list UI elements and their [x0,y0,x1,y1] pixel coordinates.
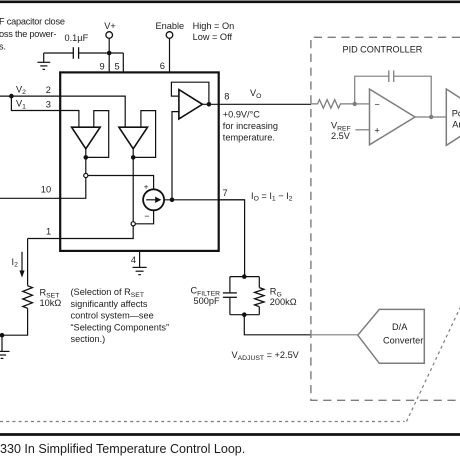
svg-text:Converter: Converter [383,336,423,346]
svg-text:Amp: Amp [452,120,460,130]
wire A3 feedback [171,82,209,104]
svg-text:oss the power-: oss the power- [0,29,56,39]
wire A2 output [132,149,134,222]
Enable wire pin 6 [169,38,171,72]
note +0.9V/degC [223,110,278,143]
PID feedback wire left segment [355,76,389,104]
pin 7 wire [219,200,245,277]
junction dot PID out [429,115,433,119]
svg-text:D/A: D/A [392,322,408,332]
svg-text:F capacitor close: F capacitor close [0,17,65,27]
wire PID op amp out [415,116,446,118]
V+ terminal [106,32,113,39]
power amp [446,89,460,145]
diagonal dashed boundary [407,308,460,422]
junction dot ground net [0,333,4,338]
svg-text:500pF: 500pF [194,296,220,306]
svg-text:0.1µF: 0.1µF [65,33,89,43]
wire N1 down to pin 10 [0,178,86,199]
svg-text:+: + [375,125,380,135]
junction dot V+ [107,51,112,56]
top rule [0,0,460,3]
junction dot A1 out [84,155,89,160]
svg-text:Enable: Enable [156,21,185,31]
buffer amp A2 [119,127,148,149]
svg-text:4: 4 [131,255,136,265]
capacitor PID feedback [388,70,390,82]
svg-text:“Selecting Components”: “Selecting Components” [71,322,170,332]
svg-text:200kΩ: 200kΩ [270,297,297,307]
op-amp PID [370,89,416,145]
node circle N1 [84,173,88,177]
wire V+ rail left segment [44,52,73,54]
junction dot A3 out [207,102,212,107]
svg-text:significantly affects: significantly affects [71,299,148,309]
note selection of RSET [71,287,170,344]
svg-text:10kΩ: 10kΩ [40,298,62,308]
svg-text:section.): section.) [71,334,106,344]
outer dotted boundary [0,421,405,423]
wire A2 feedback [133,111,155,158]
wire N2 down pin 1 [28,226,134,239]
current source I1 [143,189,164,210]
I2 arrow [21,252,23,272]
resistor RSET [23,286,33,309]
wire A1 feedback [86,111,109,158]
resistor PID input [311,100,355,109]
svg-text:330 In Simplified Temperature: 330 In Simplified Temperature Control Lo… [0,442,245,456]
svg-text:2: 2 [46,85,51,95]
svg-text:3: 3 [46,99,51,109]
wire RSET bottom [0,308,28,335]
wire V+ rail right segment [79,52,123,54]
wire N1 to current source top [88,176,154,190]
svg-text:temperature.: temperature. [223,133,275,143]
svg-text:Low = Off: Low = Off [193,32,233,42]
buffer amp A1 [72,127,101,149]
bottom rule [0,433,460,436]
svg-text:V+: V+ [104,21,116,31]
pin 5 stub [122,53,124,72]
wire V2 pin 2 [0,96,125,127]
svg-text:+0.9V/°C: +0.9V/°C [223,110,260,120]
capacitor C1 plates [72,47,74,59]
svg-text:+: + [144,182,149,191]
junction dot bottom [242,312,247,317]
wire to op amp inverting input [172,112,179,200]
pin 4 stub [139,252,141,268]
wire top node [230,276,259,278]
capacitor CFILTER [229,277,231,293]
svg-text:10: 10 [41,184,51,194]
svg-text:8: 8 [224,92,229,102]
VREF wire [355,129,369,131]
junction dot PID in [353,102,357,106]
svg-text:5: 5 [115,61,120,71]
wire V+ down [108,38,110,53]
svg-text:High = On: High = On [193,21,235,31]
svg-text:−: − [375,99,380,109]
junction dot top [242,274,247,279]
wire A3 output pin 8 [202,103,311,105]
note text top-left [0,17,65,52]
op-amp A3 [179,90,203,119]
svg-text:2.5V: 2.5V [331,131,351,141]
wire to op amp minus [355,103,370,105]
svg-text:1: 1 [46,226,51,236]
PID feedback wire right segment [394,76,431,117]
wire to DA converter [311,334,358,336]
wire A1 out to node N1 [85,157,87,173]
svg-text:control system—see: control system—see [71,311,154,321]
svg-text:6: 6 [160,61,165,71]
ground top-left [38,53,51,69]
Enable terminal [166,32,173,39]
svg-text:Power: Power [452,109,460,119]
PID controller dashed box [311,37,460,400]
pin 9 stub [108,53,110,72]
svg-text:7: 7 [223,188,228,198]
junction dot A2 out [131,155,136,160]
junction dot V2 [9,94,14,99]
svg-text:−: − [144,211,149,221]
resistor RG [258,277,260,288]
wire pin 1 down [27,239,29,286]
IC body U1 [60,72,219,251]
wire bottom node [230,314,259,316]
D/A converter [358,309,425,363]
ground bottom-left [0,335,10,358]
wire down to DA [244,315,311,335]
wire current source bottom [135,210,153,224]
wire current source out pin 7 [164,199,245,201]
junction dot pin7 net [170,198,175,203]
svg-text:PID CONTROLLER: PID CONTROLLER [343,45,423,55]
ground pin 4 [133,267,147,274]
wire V1 pin 3 [11,96,79,127]
svg-text:for increasing: for increasing [223,121,278,131]
svg-text:s.: s. [0,42,6,52]
svg-text:9: 9 [100,61,105,71]
node circle N2 [131,222,135,226]
wire A1 output [85,149,87,158]
